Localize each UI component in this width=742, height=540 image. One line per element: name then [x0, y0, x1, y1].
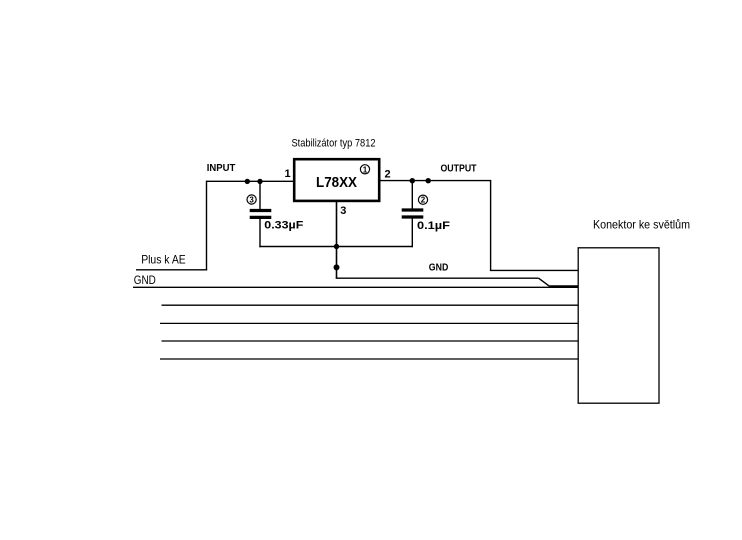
label: Plus k AE	[141, 253, 186, 267]
wire: ground horizontal from pin3 drop	[336, 277, 539, 279]
svg-text:INPUT: INPUT	[207, 163, 236, 174]
wire: output horizontal to connector	[490, 269, 578, 271]
label: Stabilizátor typ 7812	[292, 137, 376, 149]
connector J1 box	[578, 248, 659, 403]
wire: vertical from INPUT down to Plus k AE rail	[206, 181, 208, 270]
wire: harness line C	[162, 340, 579, 342]
pin 1 label	[285, 168, 291, 180]
pin 2 label	[385, 169, 391, 181]
capacitor C3 0.33µF top lead	[259, 181, 261, 209]
svg-text:0.33µF: 0.33µF	[264, 219, 303, 231]
wire: Plus k AE horizontal	[136, 269, 207, 271]
wire: capacitor bottom rail	[259, 246, 413, 248]
junction dot on output wire at C2 tap	[410, 178, 415, 183]
label: GND (left bus)	[134, 273, 156, 287]
capacitor C3 plates	[250, 211, 272, 218]
capacitor C2 plates	[402, 210, 424, 217]
svg-text:Stabilizátor typ 7812: Stabilizátor typ 7812	[292, 137, 376, 149]
svg-text:2: 2	[421, 196, 426, 205]
svg-text:3: 3	[340, 205, 346, 217]
capacitor C2 bottom lead	[411, 219, 413, 248]
svg-text:Plus k AE: Plus k AE	[141, 253, 186, 267]
marker ① inside regulator	[360, 165, 369, 175]
node INPUT label	[207, 163, 236, 174]
svg-text:1: 1	[363, 165, 368, 174]
junction dot on pin3 ground drop	[334, 264, 340, 270]
wire: ground thick segment into connector	[549, 285, 578, 287]
wire: harness line A	[162, 304, 579, 306]
capacitor C2 0.1µF top lead	[411, 181, 413, 209]
svg-text:2: 2	[385, 169, 391, 181]
value label 0.33µF	[264, 219, 303, 231]
junction dot on output wire (right)	[426, 178, 431, 183]
junction dot on input wire (left)	[245, 179, 250, 184]
svg-text:1: 1	[285, 168, 291, 180]
wire: regulator pin 2 to output corner	[381, 180, 491, 182]
wire: INPUT horizontal to regulator pin 1	[207, 180, 294, 182]
wire: regulator pin 3 vertical	[336, 201, 338, 278]
svg-text:OUTPUT: OUTPUT	[441, 164, 477, 175]
svg-text:Konektor ke světlům: Konektor ke světlům	[593, 218, 690, 232]
junction dot on input wire at C3 tap	[257, 179, 262, 184]
wire: GND bus long line	[133, 286, 578, 288]
svg-text:GND: GND	[134, 273, 156, 287]
svg-text:0.1µF: 0.1µF	[417, 220, 450, 232]
label: Konektor ke světlům	[593, 218, 690, 232]
svg-text:L78XX: L78XX	[316, 175, 357, 191]
pin 3 label	[340, 205, 346, 217]
value label 0.1µF	[417, 220, 450, 232]
node OUTPUT label	[441, 164, 477, 175]
capacitor C3 bottom lead	[259, 219, 261, 247]
marker ③ for C3	[247, 195, 256, 205]
junction dot pin3 x cap rail	[334, 244, 339, 249]
node GND label (circuit)	[429, 263, 449, 274]
svg-text:GND: GND	[429, 263, 449, 274]
svg-text:3: 3	[249, 196, 254, 205]
wire: harness line B	[160, 322, 578, 324]
wire: harness line D	[160, 358, 578, 360]
wire: ground diagonal jog	[539, 278, 550, 286]
regulator U1 box (L78XX)	[294, 159, 379, 201]
wire: output vertical down	[490, 180, 492, 271]
marker ② for C2	[418, 195, 427, 205]
